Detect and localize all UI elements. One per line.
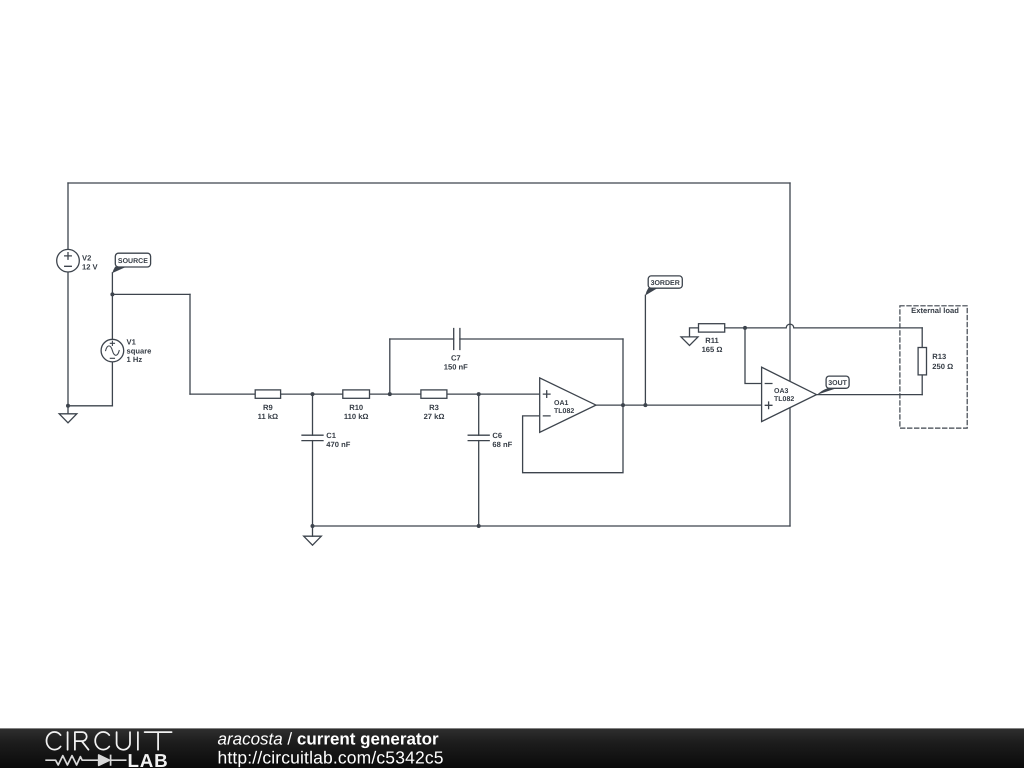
svg-text:TL082: TL082 — [774, 396, 794, 403]
svg-text:R3: R3 — [429, 403, 439, 412]
node flag 3OUT — [817, 376, 849, 395]
svg-text:TL082: TL082 — [554, 408, 574, 415]
wire C7 right vertical drop to OA1 output — [622, 339, 624, 405]
wire C7 top right segment — [460, 338, 623, 340]
node flag 3ORDER — [645, 276, 682, 296]
resistor R10 — [343, 390, 370, 398]
wire main filter row to OA1 + input — [190, 393, 540, 395]
wire OA1 feedback loop output to inverting input — [523, 405, 623, 473]
svg-text:V1: V1 — [127, 338, 137, 347]
resistor R11 — [699, 324, 725, 332]
svg-text:http://circuitlab.com/c5342c5: http://circuitlab.com/c5342c5 — [218, 748, 444, 768]
wire OA3 inverting input up to R11 row — [745, 328, 762, 384]
label V1 value — [127, 338, 152, 365]
svg-text:C7: C7 — [451, 354, 461, 363]
label R11 value — [702, 336, 723, 354]
svg-text:SOURCE: SOURCE — [118, 258, 148, 265]
wire V1 bottom horizontal to ground junction — [68, 405, 112, 407]
CircuitLab logo wordmark CIRCUIT — [47, 732, 172, 750]
capacitor C7 — [454, 329, 460, 350]
svg-text:3ORDER: 3ORDER — [651, 280, 680, 287]
svg-text:C6: C6 — [492, 431, 502, 440]
op-amp OA3 TL082 — [762, 367, 817, 421]
svg-text:square: square — [127, 346, 152, 355]
wire source junction to V1 top — [111, 294, 113, 339]
svg-text:3OUT: 3OUT — [828, 380, 847, 387]
svg-text:165 Ω: 165 Ω — [702, 345, 723, 354]
wire V1 bottom lead — [111, 362, 113, 406]
node R11 / OA3 inverting junction — [743, 326, 747, 330]
svg-text:27 kΩ: 27 kΩ — [424, 412, 445, 421]
ground at R11 — [681, 337, 698, 346]
node 3ORDER junction — [643, 403, 647, 407]
wire OA3 output row to external load — [817, 394, 923, 396]
svg-text:250 Ω: 250 Ω — [932, 362, 953, 371]
svg-text:11 kΩ: 11 kΩ — [258, 412, 278, 421]
voltage source V2 — [57, 249, 80, 272]
node OA1 output junction — [621, 403, 625, 407]
label R13 value — [932, 352, 953, 371]
label C7 value — [444, 354, 468, 372]
wire C1 top lead — [312, 394, 314, 435]
svg-text:110 kΩ: 110 kΩ — [344, 412, 369, 421]
node C7 riser junction — [388, 392, 392, 396]
wire SOURCE flag stem — [111, 273, 113, 295]
svg-text:OA1: OA1 — [554, 400, 569, 407]
wire R13 bottom lead — [921, 375, 923, 395]
wire R11 right lead to junction — [725, 327, 745, 329]
resistor R13 — [918, 348, 926, 375]
label R10 value — [344, 403, 369, 421]
label V2 value — [82, 254, 99, 272]
svg-text:12 V: 12 V — [82, 262, 99, 271]
wire external load left top drop to R13 — [921, 328, 923, 348]
svg-text:External load: External load — [911, 306, 959, 315]
label C6 value — [492, 431, 512, 449]
footer bar — [0, 728, 1024, 768]
node bottom rail ground junction — [311, 524, 315, 528]
wire right vertical drop from top rail to bottom rail — [789, 183, 791, 526]
wire C7 left vertical riser — [389, 339, 391, 394]
svg-text:470 nF: 470 nF — [326, 440, 350, 449]
ground at V2/V1 return — [59, 406, 77, 423]
svg-text:aracosta / current generator: aracosta / current generator — [218, 730, 439, 749]
node ground return junction — [66, 404, 70, 408]
node C6 bottom junction — [477, 524, 481, 528]
resistor R9 — [255, 390, 280, 398]
svg-text:R10: R10 — [349, 403, 363, 412]
wire source junction horizontal — [112, 293, 190, 295]
ground at bottom rail — [304, 526, 322, 545]
wire R11 left lead to ground — [690, 328, 699, 337]
svg-text:OA3: OA3 — [774, 388, 789, 395]
wire C6 bottom lead — [478, 441, 480, 526]
node SOURCE junction — [110, 292, 114, 296]
wire top supply rail from V2 top to right drop — [68, 182, 790, 184]
node flag SOURCE — [112, 253, 150, 273]
svg-text:R9: R9 — [263, 403, 273, 412]
capacitor C1 — [302, 435, 323, 440]
external load dashed enclosure — [900, 306, 967, 428]
svg-text:C1: C1 — [326, 431, 336, 440]
label C1 value — [326, 431, 350, 449]
wire vertical into filter row — [189, 294, 191, 394]
wire C1 bottom lead — [312, 441, 314, 526]
node C6 top junction — [477, 392, 481, 396]
CircuitLab logo resistor-diode glyph — [45, 755, 126, 766]
svg-text:R11: R11 — [705, 336, 719, 345]
wire R11 row to external load with hop over vertical rail — [745, 324, 922, 328]
svg-text:1 Hz: 1 Hz — [127, 355, 143, 364]
wire OA1 output row to OA3 + input — [596, 404, 762, 406]
wire C7 top left segment — [390, 338, 454, 340]
capacitor C6 — [468, 435, 489, 440]
svg-text:68 nF: 68 nF — [492, 440, 512, 449]
wire V2 bottom lead to ground junction — [67, 272, 69, 406]
label R9 value — [258, 403, 278, 421]
svg-text:R13: R13 — [932, 352, 946, 361]
svg-text:LAB: LAB — [128, 750, 169, 768]
label R3 value — [424, 403, 445, 421]
wire 3ORDER flag stem — [644, 295, 646, 405]
voltage source V1 — [101, 339, 124, 362]
wire V2 top lead — [67, 183, 69, 249]
svg-text:150 nF: 150 nF — [444, 362, 468, 371]
resistor R3 — [421, 390, 447, 398]
op-amp OA1 TL082 — [540, 378, 596, 432]
wire C6 top lead — [478, 394, 480, 435]
svg-text:V2: V2 — [82, 254, 91, 263]
node C1 top junction — [311, 392, 315, 396]
wire bottom ground rail — [313, 525, 791, 527]
